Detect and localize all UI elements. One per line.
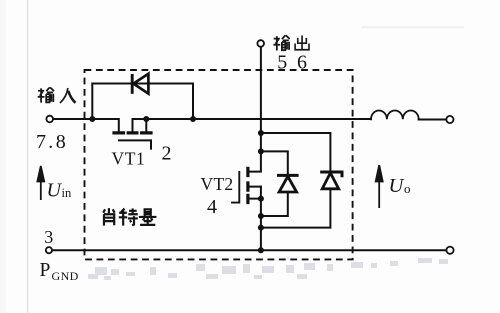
- svg-text:U: U: [47, 180, 63, 202]
- svg-text:U: U: [389, 175, 405, 197]
- svg-text:2: 2: [162, 142, 172, 164]
- svg-text:P: P: [40, 260, 51, 281]
- svg-text:7.8: 7.8: [36, 131, 66, 153]
- svg-text:5: 5: [277, 51, 287, 73]
- svg-text:6: 6: [297, 51, 307, 73]
- svg-text:in: in: [62, 186, 72, 200]
- svg-text:3: 3: [44, 227, 53, 247]
- svg-text:VT2: VT2: [201, 174, 234, 194]
- svg-text:4: 4: [207, 196, 217, 218]
- svg-text:GND: GND: [52, 269, 79, 283]
- svg-text:VT1: VT1: [112, 149, 146, 169]
- svg-text:o: o: [404, 181, 411, 196]
